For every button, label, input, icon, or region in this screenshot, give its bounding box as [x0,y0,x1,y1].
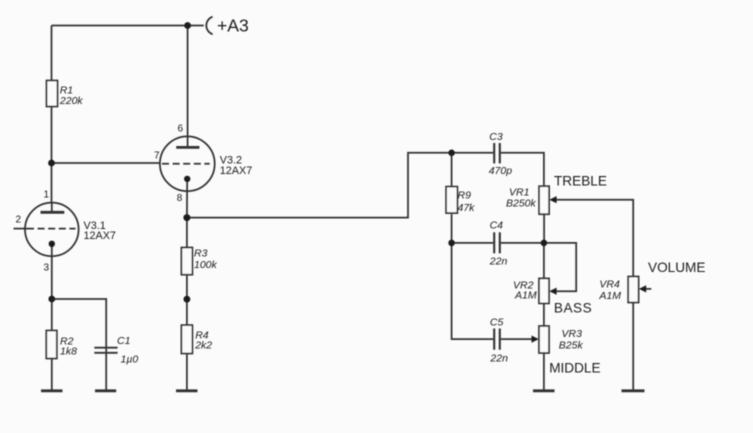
wire: R1 bottom to grid node [51,107,53,164]
svg-text:1k8: 1k8 [60,346,77,358]
label VR2 value [513,279,537,301]
tube V3.2 cathode dot [184,176,190,182]
wire: node down to VR2 top [543,243,545,279]
label VR3 value [559,328,584,352]
ground G2 (C1) [95,389,116,392]
tube V3.1 envelope [25,203,79,257]
wire: VR4 bottom to ground [632,303,634,390]
capacitor C1 [94,348,117,353]
wire: C3 to VR1 top [501,153,544,186]
node: B+ rail junction [184,22,191,29]
wire: node to V3.2 grid pin 7 [52,162,161,164]
wire: VR4 wiper stub [645,288,652,290]
svg-text:MIDDLE: MIDDLE [549,360,600,375]
label VR4 value [598,278,621,302]
svg-text:2k2: 2k2 [194,339,212,351]
node: C3/R9 junction [448,150,455,157]
wire: VR1 bottom to node [543,214,545,243]
tube V3.1 grid (pin 2 stub + dashed grid) [14,228,76,230]
tube V3.1 plate [41,203,65,213]
capacitor C4 [494,232,500,253]
tube V3.2 grid dashed line [162,163,210,165]
wire: C5 to VR3 wiper arrow [501,338,533,340]
potentiometer VR4 (volume) [628,277,638,303]
potentiometer VR3 (middle) [539,326,549,353]
svg-text:22n: 22n [489,352,508,364]
svg-text:C5: C5 [490,316,504,328]
resistor R3 [181,248,192,275]
svg-text:VR4: VR4 [599,278,620,290]
svg-text:12AX7: 12AX7 [84,230,116,242]
label C1 value [117,335,138,365]
wire: R9 top lead [451,153,453,187]
svg-text:B25k: B25k [559,340,584,352]
capacitor C5 [494,329,500,350]
wire: C4 row right [501,242,544,244]
label R1 value [59,84,84,107]
terminal +A3 arc [206,17,212,35]
svg-text:VOLUME: VOLUME [648,260,705,275]
wire: R9 bottom to C4 node [451,214,453,243]
potentiometer VR2 (bass) [539,278,549,303]
svg-text:1: 1 [44,190,50,201]
wire: VR2 bottom to VR3 top [543,303,545,326]
wire: left column down to C5 [452,243,494,339]
wire: V3.1 cathode pin 3 down to node [51,256,53,299]
svg-text:C4: C4 [490,219,504,231]
svg-text:R3: R3 [194,247,208,259]
wire: R4 bottom to ground [186,354,188,390]
svg-text:A1M: A1M [598,290,621,302]
label VR1 value [506,187,537,210]
svg-text:C1: C1 [117,335,130,347]
tube V3.2 plate [176,146,199,149]
label C3 value [489,131,513,177]
arrow: VR4 wiper [639,285,646,292]
resistor R1 [47,81,58,107]
svg-text:47k: 47k [458,202,476,214]
svg-text:220k: 220k [59,95,84,107]
resistor R2 [46,331,57,359]
wire: bass loop node to VR2 wiper [544,243,576,291]
wire: cathode node to C1 [52,299,106,390]
svg-text:100k: 100k [194,259,218,271]
svg-text:470p: 470p [489,165,513,177]
ground G1 (R2) [41,389,63,392]
node: V3.1 cathode junction [48,296,55,303]
arrow: VR3 wiper [532,336,539,343]
svg-text:6: 6 [178,124,184,135]
wire: R3 top lead [186,218,188,248]
wire: B+ rail top horizontal [52,25,204,27]
svg-text:12AX7: 12AX7 [220,165,252,177]
tube V3.1 cathode dot [49,241,55,247]
label C5 value [489,316,508,364]
tube V3.2 cathode lead pin 8 [186,179,188,218]
wire: VR1 wiper to VR4 top [556,200,633,277]
svg-text:7: 7 [154,151,160,162]
svg-text:R9: R9 [458,189,472,201]
label V3.2 [220,154,252,177]
svg-text:22n: 22n [489,256,508,268]
svg-text:3: 3 [44,263,50,274]
label R2 value [60,336,77,358]
label V3.1 [84,220,116,242]
resistor R9 [446,187,457,214]
arrow: VR1 wiper [549,196,556,203]
node: V3.2 cathode output junction [183,214,190,221]
wire: R4 top lead [186,299,188,325]
tube V3.2 envelope [160,136,215,191]
tube V3.1 cathode lead [51,244,53,256]
svg-text:A1M: A1M [514,290,537,302]
wire: left rail down to R1 [51,26,53,81]
node: VR1/C4/VR2 junction [541,240,548,247]
ground G3 (R4) [176,389,198,392]
wire: node down to V3.1 plate pin 1 [51,163,53,203]
svg-text:1µ0: 1µ0 [121,354,139,366]
wire: node down to R2 [51,299,53,331]
label R9 value [458,189,476,214]
node: V3.1 grid / V3.2 junction [48,160,55,167]
label R4 value [194,330,212,352]
node: R3/R4 junction [184,296,191,303]
svg-text:TREBLE: TREBLE [554,173,607,188]
wire: plate rail down to V3.2 plate pin 6 [187,26,189,148]
svg-text:B250k: B250k [506,197,537,209]
svg-text:C3: C3 [489,131,503,143]
wire: C4 row left [452,242,494,244]
svg-text:2: 2 [16,215,22,226]
node: R9/C4 junction [448,240,455,247]
svg-text:BASS: BASS [554,300,592,315]
label C4 value [489,219,508,267]
svg-text:VR3: VR3 [562,328,583,340]
resistor R4 [181,325,192,353]
ground G4 (VR3) [533,389,555,392]
wire: output from cathode node to tone stack [187,153,493,218]
arrow: VR2 wiper [549,288,556,295]
label R3 value [194,247,218,271]
potentiometer VR1 (treble) [539,186,549,214]
wire: R2 bottom to ground [51,359,53,390]
ground G5 (VR4) [622,389,645,392]
svg-text:+A3: +A3 [217,16,249,36]
wire: R3 bottom to node [186,275,188,300]
wire: VR3 bottom to ground [543,353,545,390]
capacitor C3 [494,143,500,163]
svg-text:8: 8 [177,193,183,204]
